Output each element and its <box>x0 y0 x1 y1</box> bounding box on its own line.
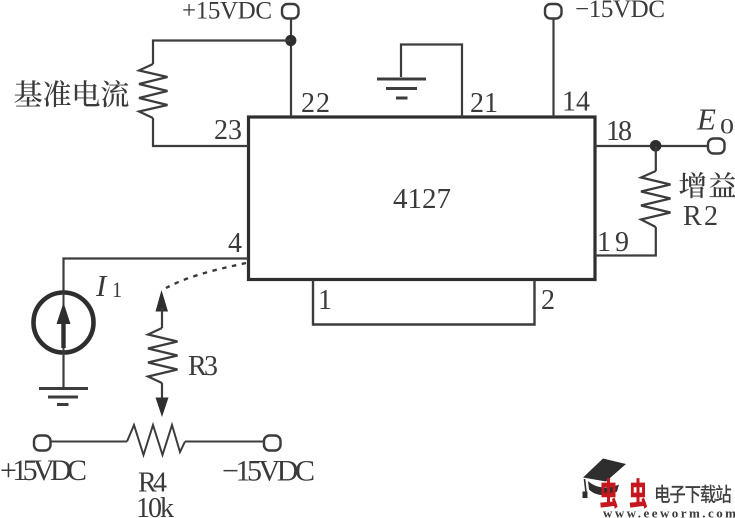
terminal E0 <box>708 139 725 154</box>
svg-text:www.eeworm.com: www.eeworm.com <box>603 506 735 518</box>
arrow (R3 top, wiper) <box>156 290 169 328</box>
label I1 <box>95 268 122 303</box>
watermark logo: graduation cap <box>583 459 627 499</box>
pin 19 label <box>597 227 629 258</box>
svg-text:2: 2 <box>541 285 555 316</box>
svg-text:4127: 4127 <box>393 183 451 215</box>
resistor R2 <box>641 171 671 227</box>
terminal -15VDC (top) <box>545 4 562 19</box>
svg-text:0: 0 <box>720 114 734 139</box>
svg-text:14: 14 <box>562 87 590 118</box>
terminal -15VDC (bottom) <box>264 436 281 451</box>
svg-text:1: 1 <box>318 285 332 316</box>
junction dot at E0 node <box>650 140 662 152</box>
pin 21 label <box>470 88 498 119</box>
wire: E0 node down to R2 <box>655 146 657 171</box>
wire: I1 to ground <box>62 353 64 389</box>
arrow (R3 bottom, onto R4) <box>156 383 169 417</box>
wire: pin 21 to ground <box>401 45 462 118</box>
svg-text:10k: 10k <box>136 493 174 518</box>
watermark text 虫虫 <box>600 478 647 509</box>
watermark text 电子下载站 <box>656 485 731 504</box>
svg-text:4: 4 <box>228 228 242 259</box>
svg-text:+15VDC: +15VDC <box>0 454 87 487</box>
resistor R4 10k <box>127 425 185 455</box>
svg-text:21: 21 <box>470 88 498 119</box>
ground (top, pin 21) <box>377 79 426 98</box>
IC U1 bottom tab (pins 1-2) <box>313 281 535 325</box>
wire: pin 4 to current source I1 <box>64 259 249 293</box>
svg-text:I: I <box>95 268 108 303</box>
resistor (reference current) <box>139 64 168 118</box>
wire: +15VDC terminal to pin 22 <box>290 19 292 118</box>
net label -15VDC (bottom) <box>222 455 315 488</box>
label R2 <box>683 201 718 232</box>
pin 4 label <box>228 228 242 259</box>
svg-text:18: 18 <box>606 116 632 147</box>
junction dot at +15VDC node <box>285 35 296 46</box>
svg-text:+15VDC: +15VDC <box>182 0 272 25</box>
pin 14 label <box>562 87 590 118</box>
label R3 <box>188 351 218 382</box>
net label +15VDC (top) <box>182 0 272 25</box>
pin 22 label <box>301 88 330 119</box>
wire: R2 to pin 19 <box>595 227 656 256</box>
wire: reference resistor to pin 23 <box>153 118 248 146</box>
svg-text:R3: R3 <box>188 351 218 382</box>
pin 23 label <box>214 115 242 146</box>
svg-text:23: 23 <box>214 115 242 146</box>
label R4 <box>138 468 167 499</box>
wire: +15VDC node to reference resistor (top) <box>153 41 291 65</box>
watermark text www.eeworm.com <box>603 506 735 518</box>
net label E0 <box>696 102 734 139</box>
wire: +15VDC terminal to R4 <box>51 441 128 443</box>
svg-text:−15VDC: −15VDC <box>222 455 315 488</box>
svg-text:1: 1 <box>112 277 122 302</box>
svg-text:−15VDC: −15VDC <box>575 0 665 23</box>
svg-text:E: E <box>696 102 716 137</box>
pin 1 label <box>318 285 332 316</box>
pin 2 label <box>541 285 555 316</box>
net label +15VDC (bottom) <box>0 454 87 487</box>
label 10k <box>136 493 174 518</box>
current source I1 <box>34 292 94 353</box>
terminal +15VDC (top) <box>282 4 299 19</box>
wire: R4 to -15VDC terminal <box>185 441 264 443</box>
svg-text:19: 19 <box>597 227 629 258</box>
terminal +15VDC (bottom) <box>34 436 51 451</box>
svg-text:R2: R2 <box>683 201 718 232</box>
dotted wire: pin 4 to R3 wiper <box>166 263 246 288</box>
ground (below I1) <box>39 389 88 405</box>
pin 18 label <box>606 116 632 147</box>
net label -15VDC (top) <box>575 0 665 23</box>
label 基准电流 <box>15 80 129 107</box>
svg-text:22: 22 <box>301 88 330 119</box>
label 增益 (gain) <box>679 172 735 198</box>
value label 4127 <box>393 183 451 215</box>
op-amp/multiplier IC U1 4127 body <box>249 117 596 280</box>
wire: pin 18 to E0 terminal <box>595 145 709 147</box>
wire: -15VDC terminal to pin 14 <box>552 19 554 118</box>
resistor R3 <box>148 328 178 383</box>
